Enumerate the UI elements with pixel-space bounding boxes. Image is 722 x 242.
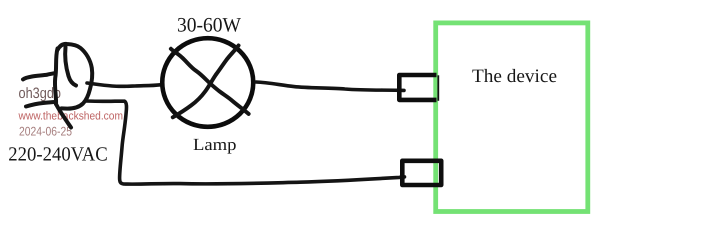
terminal box top (3 thick sides) [399,75,436,100]
svg-text:2024-06-25: 2024-06-25 [19,124,72,138]
plug P1 top prong [23,73,55,79]
plug P1 tail stroke [56,104,71,128]
svg-text:www.thebackshed.com: www.thebackshed.com [18,111,123,123]
svg-text:Lamp: Lamp [193,135,237,154]
lamp L1 circle [162,38,253,127]
plug P1 body outer [58,44,93,109]
device box (green) [436,23,588,212]
lamp L1 X stroke 2 [173,46,239,118]
wire lamp to top terminal [256,82,404,90]
terminal box bottom [402,161,441,185]
svg-text:30-60W: 30-60W [177,15,242,37]
plug P1 face line [55,49,58,105]
svg-text:The device: The device [472,66,557,87]
wire plug to bottom terminal [86,101,405,184]
plug P1 bottom prong [26,102,55,107]
plug P1 body inner curve [65,47,76,86]
svg-text:220-240VAC: 220-240VAC [8,144,108,166]
terminal box top right edge (thin) [437,75,439,101]
wire plug to lamp [87,83,161,86]
lamp L1 X stroke 1 [171,49,249,114]
